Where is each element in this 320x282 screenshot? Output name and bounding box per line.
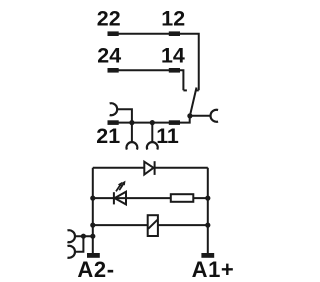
- svg-text:11: 11: [156, 124, 179, 148]
- wire coil socket lower riser: [76, 236, 84, 252]
- coil plug socket lower: [67, 246, 75, 258]
- top branch wire right: [155, 167, 208, 169]
- wire 24-14 to NO contact: [108, 70, 184, 90]
- LED arrow 2 head: [121, 181, 125, 186]
- relay pin socket B stub: [151, 123, 153, 143]
- svg-text:A2-: A2-: [77, 257, 114, 282]
- LED arrow 1 head: [118, 182, 122, 187]
- wire socket 21 to bus: [117, 109, 131, 122]
- svg-text:22: 22: [97, 7, 121, 31]
- coil plug socket upper: [67, 230, 75, 242]
- NC contact tick (pin 12): [195, 89, 199, 91]
- LED arrow 2: [119, 184, 123, 191]
- plug socket for pin 21: [110, 103, 118, 115]
- junction dot LED branch left: [90, 196, 95, 201]
- terminal 12: [169, 31, 180, 36]
- terminal A2-: [87, 253, 100, 258]
- LED cathode bar: [113, 192, 115, 204]
- terminal 14: [169, 68, 180, 73]
- junction dot coil branch right: [205, 223, 210, 228]
- junction dot switch pivot: [187, 113, 192, 118]
- wire common bus 21-11: [108, 116, 190, 123]
- junction dot coil branch left: [90, 223, 95, 228]
- relay coil branch wire: [93, 224, 208, 226]
- terminal 21: [108, 120, 119, 125]
- bottom left bus: [92, 168, 94, 253]
- diode V1 cathode bar: [154, 161, 156, 175]
- junction dot bus/socket pin B: [150, 120, 155, 125]
- plug socket common contact: [211, 110, 219, 122]
- wire pivot to socket: [190, 115, 210, 117]
- junction dot bus/socket pin A: [129, 120, 134, 125]
- svg-text:14: 14: [161, 44, 185, 68]
- junction dot bus A2: [90, 234, 95, 239]
- terminal A1+: [201, 253, 214, 258]
- LED triangle: [115, 192, 126, 205]
- terminal 11: [169, 120, 180, 125]
- relay pin socket B arch: [147, 142, 158, 149]
- relay coil diagonal: [148, 220, 157, 229]
- freewheeling diode V1: [144, 162, 153, 175]
- bottom right bus: [207, 168, 209, 253]
- svg-text:24: 24: [97, 44, 121, 68]
- LED arrow 1: [116, 185, 120, 192]
- terminal 22: [108, 31, 119, 36]
- top branch wire left: [93, 167, 145, 169]
- wire coil socket upper to bus: [76, 235, 93, 237]
- LED branch wire: [93, 197, 208, 199]
- terminal 24: [108, 68, 119, 73]
- resistor R1: [171, 194, 194, 202]
- wire 22-12 to NC contact: [108, 34, 199, 91]
- junction dot sockets join: [81, 234, 86, 239]
- relay coil K1: [148, 215, 158, 236]
- switch arm: [190, 88, 197, 116]
- svg-text:21: 21: [96, 124, 120, 148]
- svg-text:A1+: A1+: [192, 257, 235, 282]
- svg-text:12: 12: [161, 7, 185, 31]
- junction dot LED branch right: [205, 196, 210, 201]
- relay pin socket A stub: [131, 123, 133, 143]
- relay pin socket A arch: [127, 142, 138, 149]
- NO contact tick (pin 14): [183, 89, 187, 91]
